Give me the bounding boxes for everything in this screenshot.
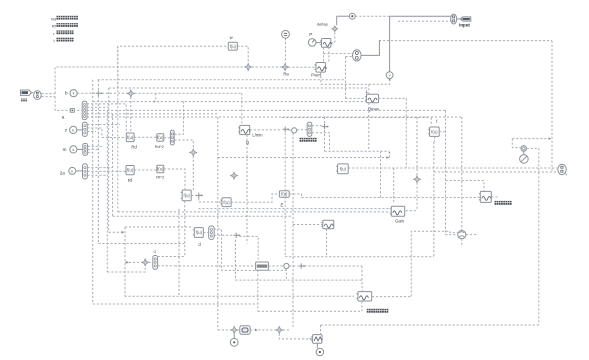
block Rd xyxy=(126,133,134,142)
clock star xyxy=(521,146,527,152)
wire sum to product xyxy=(289,129,292,132)
block Q xyxy=(238,125,250,134)
wire nonuni out xyxy=(372,296,411,298)
block G1 xyxy=(181,190,192,201)
circle v xyxy=(386,72,393,79)
junction on pressure row xyxy=(245,63,252,70)
block G2 xyxy=(220,198,231,207)
arrowhead on H101 xyxy=(154,100,156,102)
wire x417 down to junction xyxy=(416,117,418,176)
svg-text:z: z xyxy=(65,128,68,133)
long wire H y296 into nonuni xyxy=(125,295,355,297)
wire up into junction xyxy=(107,266,145,272)
trunk x552 down xyxy=(551,41,553,172)
wire Gain out to x417 xyxy=(406,210,417,212)
wire y157 arrow row xyxy=(218,157,387,159)
arrowhead into Qmax xyxy=(366,92,368,94)
mux 3 xyxy=(83,143,88,155)
mux2 out3 xyxy=(87,131,96,133)
svg-text:k: k xyxy=(73,92,75,96)
sum junction on b row xyxy=(96,91,101,96)
wire Qmax down to y151 xyxy=(368,103,370,151)
mux2 out2 to Rd xyxy=(87,128,126,138)
trunk x218 down to scope row xyxy=(217,117,219,330)
svg-text:f(u): f(u) xyxy=(184,193,191,198)
block f(u) mid-right xyxy=(336,164,348,174)
block left of Gain xyxy=(321,220,334,229)
mux5 out to junction xyxy=(174,140,193,149)
oval before Input tag xyxy=(451,14,457,24)
long wire H y197 into loop-flow xyxy=(302,197,481,199)
svg-text:L/min: L/min xyxy=(252,133,263,138)
wire z to mux2 xyxy=(77,129,83,131)
svg-text:P: P xyxy=(309,32,312,37)
block Rd^2 xyxy=(157,134,164,141)
wire loop-flow out xyxy=(491,196,498,198)
mux1 out3 long row xyxy=(87,109,446,111)
junction before mux q xyxy=(142,259,149,266)
wire to goto oval xyxy=(390,15,451,17)
wire transfer to product xyxy=(268,265,283,267)
wire gauge to product xyxy=(316,42,322,44)
wire into Qmax xyxy=(346,97,367,99)
trunk x112 xyxy=(112,114,114,216)
wire circle-dot right xyxy=(355,15,389,17)
constant circle m xyxy=(70,146,77,153)
wire product down stub xyxy=(461,239,463,247)
wire sum to G2 xyxy=(199,198,221,202)
long wire y172 xyxy=(434,171,558,173)
wire x380 down xyxy=(380,151,382,197)
mux4 out1 xyxy=(87,167,112,169)
small box a xyxy=(70,109,74,113)
wire y151 xyxy=(325,150,390,152)
wire y232 arrow to x124 xyxy=(109,231,123,233)
junction below Q xyxy=(230,172,237,179)
wire mux d out down and right xyxy=(214,229,286,270)
clock block xyxy=(520,155,529,164)
wire oval pair down to Qmax xyxy=(345,57,347,99)
long wire H y40 right xyxy=(383,40,552,42)
block f xyxy=(428,127,439,136)
wire x461 down to product circle xyxy=(461,117,463,231)
mux4 out3 xyxy=(87,174,107,176)
wire G1 to sum xyxy=(191,194,196,196)
wire product down to Pvert right xyxy=(328,47,330,62)
trunk x98 xyxy=(97,80,99,244)
svg-text:Q: Q xyxy=(246,140,250,145)
svg-text:2a: 2a xyxy=(60,171,66,176)
wire junction to circle xyxy=(233,334,235,339)
svg-text:Rd: Rd xyxy=(51,16,56,21)
svg-text:v: v xyxy=(389,74,391,78)
wire sum down to y151 xyxy=(324,130,326,151)
label actual-flow (chinese) xyxy=(300,138,317,142)
sum after G1 xyxy=(196,193,202,199)
wire H y117 xyxy=(282,117,430,119)
mux 2 xyxy=(82,122,87,136)
wire into oval pair upper xyxy=(324,53,353,55)
wire product circle out xyxy=(466,234,478,236)
wire y227 to d block xyxy=(125,226,194,228)
scope block bottom xyxy=(240,326,250,335)
annotation line1: Rd tip-circle diameter xyxy=(57,16,78,20)
wire nonuni bottom down xyxy=(361,301,363,311)
wire into block33 xyxy=(293,224,323,226)
junction deltap xyxy=(332,26,338,32)
svg-text:f(u): f(u) xyxy=(281,192,288,197)
mux flow xyxy=(307,122,312,136)
svg-text:Rf: Rf xyxy=(52,24,57,29)
junction bottom scope row xyxy=(231,326,238,333)
svg-text:f(u): f(u) xyxy=(127,135,134,140)
wire y311 xyxy=(258,310,362,312)
svg-text:Qmax: Qmax xyxy=(368,107,380,112)
block signal bottom xyxy=(311,335,322,344)
wire x179 down xyxy=(178,209,180,296)
svg-text:m: m xyxy=(63,147,67,152)
mux3 out3 xyxy=(88,151,93,153)
wire y325 left xyxy=(321,324,539,326)
wire to junction mux q xyxy=(125,261,142,263)
wire d block to mux xyxy=(203,232,208,234)
wire oval to Input tag xyxy=(457,18,463,20)
trunk x107 xyxy=(106,110,108,272)
constant circle 2a xyxy=(69,167,76,174)
svg-text:k: k xyxy=(71,169,73,173)
arrowhead into circle v xyxy=(389,78,391,80)
arrowhead up into y151 xyxy=(388,151,390,153)
wire box a to mux1 xyxy=(77,109,82,111)
arrowhead x552 xyxy=(549,137,552,140)
sum junction right of flow mux xyxy=(322,124,327,129)
wire oval pair to corner xyxy=(361,41,381,56)
wire riser up to pressure row xyxy=(55,67,245,94)
svg-text:f(u): f(u) xyxy=(157,167,164,172)
svg-text:Rd: Rd xyxy=(131,145,137,150)
svg-text:b: b xyxy=(65,91,68,96)
mux4 out2 to Rf xyxy=(87,170,126,172)
wire Qmax out xyxy=(379,97,407,99)
wire sum up xyxy=(324,117,326,123)
mux3 out2 xyxy=(88,148,98,150)
mux d xyxy=(209,226,214,239)
block Rf^2 xyxy=(157,165,164,172)
svg-text:f(u): f(u) xyxy=(196,230,203,235)
long wire H y116 xyxy=(87,116,462,118)
wire x389 up xyxy=(389,153,391,158)
wire product to mux xyxy=(297,129,307,131)
trunk x92 xyxy=(92,80,94,304)
arrowhead y232 xyxy=(122,231,125,234)
svg-text:E: E xyxy=(281,203,284,208)
wire sum to star xyxy=(102,92,127,94)
wire to transfer block xyxy=(175,265,256,267)
block E xyxy=(279,191,289,198)
junction bottom second xyxy=(276,326,283,333)
svg-text:k: k xyxy=(72,148,74,152)
wire H84 down to Qmax xyxy=(368,84,370,94)
wire junction2 down to signal block xyxy=(279,334,309,339)
wire sum out right xyxy=(305,265,362,267)
long wire H y208 into Gain xyxy=(198,208,391,210)
block Gain xyxy=(390,206,405,216)
wire junction to mux q xyxy=(148,261,152,263)
wire Ra to Pvert xyxy=(288,66,316,68)
wire w block to junction xyxy=(237,46,248,63)
wire x285 down from sum xyxy=(284,133,286,257)
junction near Rd^2 output xyxy=(190,149,197,156)
mux1 out2 xyxy=(87,106,109,108)
wire Q out xyxy=(250,129,282,131)
mux2 out1 xyxy=(87,124,120,126)
block w f(u) xyxy=(228,42,237,50)
wire corner to clock star xyxy=(512,139,521,148)
circle below signal block xyxy=(316,348,324,356)
svg-text:t: t xyxy=(53,38,55,43)
svg-text:Gain: Gain xyxy=(395,219,405,224)
arrowhead mux q xyxy=(126,261,129,264)
wire f bottom down long xyxy=(433,142,435,257)
svg-text:Rd^2: Rd^2 xyxy=(155,144,165,149)
svg-text:f: f xyxy=(436,119,438,124)
svg-text:f(u): f(u) xyxy=(230,44,237,49)
block non-uniformity xyxy=(356,292,371,301)
wire scope to junction2 xyxy=(250,329,276,331)
wire transfer bottom down xyxy=(257,270,259,311)
mux after Rd^2 xyxy=(170,130,174,145)
circle below scope xyxy=(230,338,238,346)
long wire H y216 xyxy=(113,215,293,217)
product circle mid xyxy=(292,128,297,133)
source block label xyxy=(21,99,27,102)
wire Rd to Rd^2 xyxy=(134,136,157,138)
svg-text:f(u): f(u) xyxy=(127,168,134,173)
svg-text:f(u): f(u) xyxy=(157,135,164,140)
circle dot top xyxy=(349,13,355,19)
wire circle-dot to deltap junction xyxy=(336,16,338,25)
circle equals xyxy=(282,30,290,38)
wire into x552 arrow xyxy=(512,138,549,140)
svg-text:k: k xyxy=(72,128,74,132)
wire equals down to Ra xyxy=(285,38,287,63)
svg-text:f(u): f(u) xyxy=(223,200,230,205)
svg-text:Input: Input xyxy=(459,23,470,28)
wire junction to Ra xyxy=(252,66,282,68)
label non-uniformity-coefficient (chinese) xyxy=(367,309,389,313)
wire junction to scope xyxy=(238,329,240,331)
sum before product xyxy=(283,127,288,132)
wire circle bottom to y280 xyxy=(285,269,287,281)
mux1 out1 to Rd top xyxy=(87,104,126,133)
arrowhead y157 xyxy=(387,156,390,159)
block Qmax xyxy=(365,94,379,103)
wire Q bottom down xyxy=(246,135,248,244)
long wire H y87 into Qmax top xyxy=(109,88,367,93)
wire Qmax out down to y168 row xyxy=(405,98,407,167)
wire product to sum xyxy=(289,265,298,267)
transfer block bottom mid xyxy=(256,262,269,270)
integrator oval right xyxy=(558,164,567,175)
wire Rd^2 to mux5 xyxy=(164,137,171,139)
junction upper right of Gain xyxy=(413,176,420,183)
long wire H y212 into Gain xyxy=(118,211,392,213)
annotation line3: pitch-circle diameter xyxy=(57,30,74,34)
wire block to circle xyxy=(316,343,318,348)
wire f out xyxy=(439,131,445,133)
wire E out xyxy=(289,194,301,198)
wire star right to trunk x540 xyxy=(527,148,539,325)
wire branch down to Gain top xyxy=(393,168,395,203)
wire down into Q top xyxy=(241,93,243,125)
arrow into signal block xyxy=(309,338,312,340)
wire 2a to mux4 xyxy=(76,170,83,172)
constant circle z xyxy=(70,126,77,133)
wire to loop-flow top xyxy=(446,181,485,192)
mux5 out1 elbow up to H101 xyxy=(174,102,183,135)
svg-text:q: q xyxy=(153,250,155,254)
wire mux flow out upper xyxy=(312,125,322,127)
block Pvert xyxy=(315,63,327,73)
wire lower into goto oval xyxy=(398,20,451,22)
svg-text:f(u): f(u) xyxy=(431,129,438,134)
arrowhead scope row xyxy=(255,329,258,332)
wire Rf to Rf^2 xyxy=(134,169,157,171)
svg-text:d: d xyxy=(198,242,201,247)
wire x362 down to nonuni xyxy=(361,266,363,292)
mux q out1 to x184 xyxy=(158,256,185,258)
wire sum down xyxy=(234,240,236,280)
wire sum right down to transfer top xyxy=(239,236,258,259)
wire oval out lower xyxy=(42,96,56,98)
svg-text:a: a xyxy=(62,115,65,120)
wire star down to Rd xyxy=(130,97,132,133)
wire circle-dot left xyxy=(337,15,350,17)
wire m to mux3 xyxy=(77,148,83,150)
wire trunk to w block xyxy=(118,46,229,88)
mux1 out4 row xyxy=(87,113,218,115)
wire Pvert down + H y84 + up into circle v xyxy=(321,72,390,84)
product circle right xyxy=(458,231,466,239)
wire b to sum xyxy=(77,92,95,94)
vertical solid x389 xyxy=(389,16,391,72)
wire G2 to E xyxy=(231,194,279,202)
wire source to oval xyxy=(32,92,34,94)
wire star right to Q column xyxy=(134,92,241,94)
wire down into signal block xyxy=(320,325,322,335)
wire junction down to G1 top xyxy=(192,156,194,191)
wire f down stub xyxy=(433,136,435,142)
svg-text:f(u): f(u) xyxy=(340,166,347,171)
block d f(u) xyxy=(193,228,204,238)
wire star to clock xyxy=(523,151,525,154)
sum junction bottom mid xyxy=(299,263,304,268)
product circle bottom mid xyxy=(284,263,289,268)
sum junction right of mux d xyxy=(234,233,239,238)
long wire H y303 xyxy=(93,303,258,305)
long wire H y80 xyxy=(98,79,346,81)
trunk x124 xyxy=(124,227,126,296)
long wire y168 to integrator oval xyxy=(348,167,558,169)
wire G1 down to mux q row xyxy=(184,201,186,257)
oval block 2-circle xyxy=(353,50,362,61)
wire block33 bottom down xyxy=(326,229,328,257)
wire junction2 right xyxy=(283,329,290,331)
Input goto tag xyxy=(460,17,471,21)
block loop-flow xyxy=(479,191,492,202)
wire x417 junction to Gain out xyxy=(416,183,418,211)
annotation line2: Rf root-circle diameter xyxy=(57,23,78,27)
long wire H y101 xyxy=(93,101,369,103)
long wire y256 right xyxy=(285,256,434,258)
svg-text:Ra: Ra xyxy=(283,72,289,77)
wire y280 xyxy=(235,279,362,281)
junction Ra xyxy=(282,64,289,71)
wire mux d out to sum xyxy=(214,234,233,236)
star junction feeding Rd xyxy=(127,90,134,97)
wire into oval pair lower xyxy=(346,56,353,58)
wire x293 down long xyxy=(292,133,294,327)
block Rf xyxy=(126,166,134,175)
mux 4 xyxy=(83,164,88,179)
trunk x116 xyxy=(117,46,119,212)
wire product down to Pvert xyxy=(323,47,325,62)
wire deltap junction to product xyxy=(331,32,335,42)
wire nonuni up to product circle xyxy=(411,231,457,296)
gauge P xyxy=(308,39,316,47)
mux 1 xyxy=(82,101,87,119)
wire into scope junction xyxy=(218,329,231,331)
mux q xyxy=(153,256,158,270)
svg-text:r: r xyxy=(53,31,55,36)
wire x431 down to f top xyxy=(430,118,432,125)
label loop-flow (chinese) xyxy=(495,201,512,205)
svg-text:Rf: Rf xyxy=(128,178,133,183)
wire x445 down to product circle xyxy=(446,110,458,234)
annotation line4: base-circle pitch xyxy=(57,38,74,42)
constant circle b xyxy=(70,90,77,97)
riser b-row to H101 xyxy=(155,93,157,101)
svg-text:deltap: deltap xyxy=(317,21,329,26)
wire oval out upper xyxy=(42,93,56,95)
wire riser down to box a xyxy=(55,97,70,111)
constant source block xyxy=(21,90,32,95)
svg-text:Rf^2: Rf^2 xyxy=(156,175,165,180)
mux q out2 xyxy=(158,265,175,267)
svg-text:w: w xyxy=(230,35,234,40)
wire mux flow out lower xyxy=(312,133,330,151)
trunk x108 xyxy=(108,88,110,232)
oval junction block xyxy=(34,91,42,100)
block pressure product xyxy=(320,39,332,48)
long wire H y244 xyxy=(98,243,184,245)
wire Rf^2 to G1 top xyxy=(164,169,185,191)
mux3 out1 xyxy=(88,145,103,147)
